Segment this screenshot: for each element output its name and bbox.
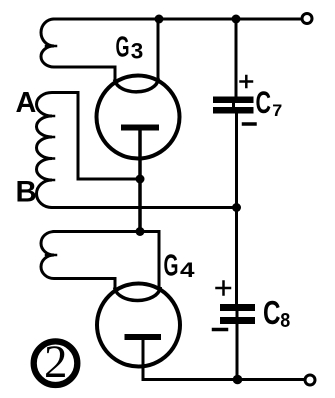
wire right column middle segment (C7 to C8)	[235, 114, 238, 305]
node junction G3 cathode with lower coil	[136, 227, 145, 236]
inductor coil top-left (2 loops)	[41, 19, 115, 80]
wire lower coil top line and G4 anode	[54, 232, 159, 289]
inductor A-B coil cusp ticks	[45, 116, 54, 180]
node junction G3 cathode with left wire	[136, 175, 145, 184]
wire right column bottom segment (C8 to bottom rail)	[236, 324, 239, 380]
svg-text:8: 8	[280, 309, 290, 332]
svg-text:C: C	[263, 294, 281, 331]
tube G4 anode dimple arc	[115, 289, 160, 301]
wire top rail	[54, 18, 301, 21]
svg-text:4: 4	[180, 258, 195, 282]
node junction on top rail at C7	[232, 15, 241, 24]
tube G3 envelope	[97, 76, 180, 159]
wire G4 cathode stem and bottom rail	[143, 337, 304, 380]
svg-text:3: 3	[131, 38, 144, 63]
terminal top-right	[302, 14, 312, 24]
inductor coil A-B (5 loops)	[37, 93, 79, 208]
capacitor C7 minus polarity mark	[244, 122, 256, 126]
node junction bottom rail with capacitor column	[233, 375, 243, 385]
tube G3 cathode bar	[121, 125, 159, 131]
capacitor C8 minus polarity mark	[214, 328, 227, 332]
svg-text:7: 7	[272, 101, 282, 120]
capacitor C8 plus polarity mark	[217, 282, 231, 295]
terminal bottom-right	[305, 375, 315, 385]
wire G3 anode from top rail	[157, 19, 160, 80]
capacitor C7 plus polarity mark	[241, 76, 253, 87]
svg-text:B: B	[16, 176, 37, 209]
wire from coil A tap to G3 cathode	[78, 93, 140, 180]
wire B rail to right column	[52, 206, 237, 209]
tube G3 anode dimple arc	[115, 80, 158, 92]
capacitor C7 plates	[213, 97, 254, 114]
inductor coil bottom-left (2 loops)	[41, 232, 115, 290]
svg-text:2: 2	[44, 336, 68, 388]
capacitor C8 plates	[220, 304, 255, 324]
node junction on top rail at G3 anode	[155, 15, 164, 24]
tube G4 envelope	[97, 284, 180, 367]
wire right column top segment (top rail to C7)	[235, 19, 238, 97]
svg-text:G: G	[116, 31, 130, 63]
figure number circled 2	[34, 336, 78, 388]
wire G3 cathode stem	[138, 128, 142, 232]
label C7	[256, 85, 283, 120]
svg-text:C: C	[256, 85, 272, 120]
label G4	[164, 249, 195, 283]
label C8	[263, 294, 290, 332]
inductor top coil cusp tick	[46, 45, 56, 48]
node junction B rail with capacitor column	[232, 203, 241, 212]
tube G4 cathode bar	[125, 334, 162, 340]
inductor bottom coil cusp tick	[46, 254, 56, 257]
svg-text:G: G	[164, 249, 179, 283]
svg-text:A: A	[16, 87, 37, 119]
label G3	[116, 31, 144, 63]
